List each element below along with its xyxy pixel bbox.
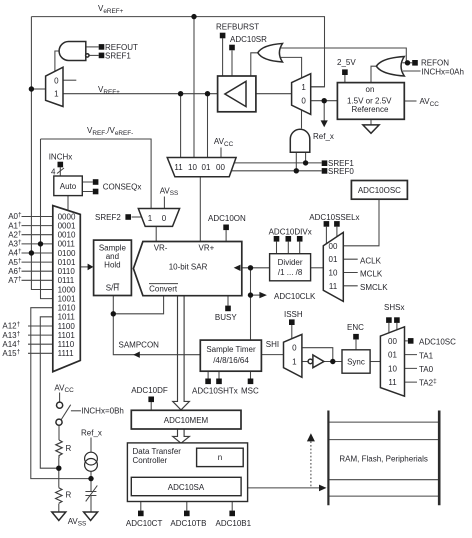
svg-text:10-bit SAR: 10-bit SAR (169, 262, 208, 271)
svg-text:10: 10 (329, 269, 338, 278)
svg-text:10: 10 (188, 163, 197, 172)
svg-text:TA0: TA0 (419, 365, 434, 374)
svg-text:1: 1 (148, 214, 153, 223)
svg-text:0: 0 (292, 343, 297, 352)
svg-text:1101: 1101 (58, 331, 76, 340)
svg-text:INCHx=0Bh: INCHx=0Bh (81, 407, 123, 416)
svg-text:0110: 0110 (58, 267, 76, 276)
svg-text:ADC10CT: ADC10CT (126, 519, 163, 528)
svg-text:n: n (218, 453, 222, 462)
svg-text:INCHx: INCHx (49, 152, 73, 161)
svg-text:Convert: Convert (149, 284, 178, 293)
svg-text:01: 01 (202, 163, 211, 172)
svg-text:ADC10SC: ADC10SC (419, 338, 456, 347)
svg-text:VR-: VR- (154, 243, 168, 252)
svg-text:Ref_x: Ref_x (313, 132, 334, 141)
svg-text:ADC10TB: ADC10TB (170, 519, 206, 528)
svg-text:11: 11 (329, 282, 338, 291)
svg-text:1001: 1001 (58, 294, 76, 303)
svg-text:ADC10ON: ADC10ON (208, 214, 246, 223)
svg-text:ADC10OSC: ADC10OSC (358, 186, 401, 195)
svg-text:SHI: SHI (266, 340, 279, 349)
svg-text:01: 01 (388, 351, 397, 360)
svg-text:SREF0: SREF0 (328, 167, 354, 176)
svg-text:ADC10DF: ADC10DF (131, 386, 168, 395)
svg-text:MSC: MSC (241, 386, 259, 395)
svg-text:REFBURST: REFBURST (216, 22, 259, 31)
svg-text:ADC10DIVx: ADC10DIVx (269, 228, 312, 237)
svg-text:00: 00 (388, 337, 397, 346)
svg-text:0010: 0010 (58, 231, 76, 240)
svg-text:ADC10SR: ADC10SR (230, 35, 267, 44)
svg-text:S/H: S/H (106, 283, 120, 292)
svg-text:0001: 0001 (58, 221, 76, 230)
svg-text:4: 4 (51, 168, 56, 177)
svg-text:Data Transfer: Data Transfer (133, 447, 182, 456)
svg-text:ISSH: ISSH (284, 310, 303, 319)
svg-text:ACLK: ACLK (360, 256, 382, 265)
svg-text:Hold: Hold (104, 261, 120, 270)
svg-text:2_5V: 2_5V (337, 58, 356, 67)
svg-text:Sample Timer: Sample Timer (206, 345, 256, 354)
svg-text:1011: 1011 (58, 313, 76, 322)
svg-text:1110: 1110 (58, 340, 75, 349)
svg-text:ADC10MEM: ADC10MEM (164, 416, 209, 425)
svg-text:0: 0 (54, 76, 59, 85)
svg-text:Sync: Sync (347, 357, 365, 366)
svg-text:11: 11 (174, 163, 183, 172)
svg-text:/4/8/16/64: /4/8/16/64 (213, 356, 249, 365)
svg-text:REFON: REFON (421, 58, 449, 67)
svg-text:ADC10CLK: ADC10CLK (274, 292, 316, 301)
svg-text:TA1: TA1 (419, 351, 434, 360)
svg-text:RAM, Flash, Peripherials: RAM, Flash, Peripherials (339, 455, 427, 464)
svg-text:0000: 0000 (58, 212, 76, 221)
svg-text:1010: 1010 (58, 304, 76, 313)
svg-text:SREF1: SREF1 (105, 52, 131, 61)
svg-text:00: 00 (329, 242, 338, 251)
svg-text:SREF2: SREF2 (95, 213, 121, 222)
svg-text:ADC10SHTx: ADC10SHTx (192, 386, 238, 395)
svg-text:Divider: Divider (278, 258, 303, 267)
svg-text:/1 ... /8: /1 ... /8 (278, 268, 303, 277)
svg-text:1000: 1000 (58, 285, 76, 294)
svg-text:1: 1 (292, 358, 297, 367)
svg-text:ADC10SA: ADC10SA (168, 483, 205, 492)
svg-text:01: 01 (329, 255, 338, 264)
svg-text:BUSY: BUSY (215, 313, 237, 322)
svg-text:on: on (366, 85, 375, 94)
svg-text:0101: 0101 (58, 258, 76, 267)
svg-text:R: R (66, 491, 72, 500)
svg-text:Reference: Reference (352, 105, 389, 114)
svg-text:Controller: Controller (133, 456, 168, 465)
svg-text:10: 10 (388, 364, 397, 373)
svg-text:1: 1 (301, 83, 306, 92)
svg-text:CONSEQx: CONSEQx (103, 182, 142, 191)
svg-text:0011: 0011 (58, 240, 76, 249)
svg-text:SHSx: SHSx (384, 303, 404, 312)
svg-text:0: 0 (301, 97, 306, 106)
svg-text:1111: 1111 (58, 349, 75, 358)
svg-text:1100: 1100 (58, 322, 76, 331)
svg-text:ADC10SSELx: ADC10SSELx (309, 213, 359, 222)
svg-text:ADC10B1: ADC10B1 (216, 519, 252, 528)
svg-text:0111: 0111 (58, 276, 75, 285)
svg-text:Auto: Auto (60, 182, 77, 191)
svg-text:VR+: VR+ (199, 243, 215, 252)
svg-text:R: R (66, 444, 72, 453)
svg-text:MCLK: MCLK (360, 270, 383, 279)
svg-text:0: 0 (162, 214, 167, 223)
svg-text:Ref_x: Ref_x (81, 429, 102, 438)
svg-text:ENC: ENC (347, 323, 364, 332)
svg-text:SMCLK: SMCLK (360, 283, 388, 292)
svg-text:1: 1 (54, 89, 59, 98)
svg-text:INCHx=0Ah: INCHx=0Ah (422, 68, 464, 77)
svg-text:0100: 0100 (58, 249, 76, 258)
svg-text:SAMPCON: SAMPCON (119, 340, 160, 349)
svg-text:11: 11 (388, 378, 397, 387)
svg-text:00: 00 (216, 163, 225, 172)
